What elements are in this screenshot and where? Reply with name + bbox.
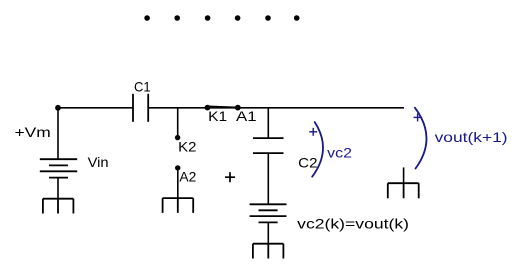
svg-text:C2: C2	[298, 154, 318, 170]
svg-text:vc2: vc2	[327, 145, 352, 161]
wire: Vm node to C1	[58, 107, 133, 109]
wire: branch down to K2	[177, 108, 179, 138]
svg-text:K2: K2	[178, 138, 196, 154]
wire: output reference stub	[403, 167, 405, 183]
wire: branch down to C2	[267, 108, 269, 138]
svg-text:vc2(k)=vout(k): vc2(k)=vout(k)	[297, 216, 409, 232]
node K1 contact dot	[205, 105, 211, 111]
wire: battery to ground	[267, 222, 269, 243]
battery vc2(k) initial condition source	[250, 204, 287, 222]
vc2 measurement arc	[312, 122, 323, 177]
wire: battery to ground	[57, 178, 59, 199]
node A1 contact dot	[235, 105, 241, 111]
plus polarity mark (vc2 battery)	[225, 172, 235, 182]
dotted continuation row	[144, 15, 299, 21]
node +Vm junction dot	[55, 105, 61, 111]
ground (below Vin)	[43, 199, 74, 214]
svg-text:A2: A2	[179, 169, 196, 185]
ground (below vc2 battery)	[253, 244, 284, 259]
svg-text:A1: A1	[236, 108, 257, 124]
svg-text:vout(k+1): vout(k+1)	[435, 129, 508, 145]
wire: C2 to battery vc2(k)	[267, 153, 269, 204]
node K2 contact dot	[175, 135, 180, 140]
svg-text:Vin: Vin	[88, 154, 109, 170]
svg-text:C1: C1	[134, 79, 151, 95]
ground (below A2 switch)	[163, 198, 194, 213]
ground (output reference)	[388, 183, 419, 198]
plus polarity mark (vc2, blue)	[309, 128, 317, 136]
switch arm K1-A1 (closed)	[208, 106, 238, 107]
wire: Vm node down to Vin battery	[57, 108, 59, 159]
svg-text:+Vm: +Vm	[15, 124, 51, 140]
plus polarity mark (vout, blue)	[414, 113, 422, 121]
capacitor C1	[133, 94, 148, 122]
battery Vin	[40, 159, 77, 177]
node A2 contact dot	[175, 165, 180, 170]
svg-text:K1: K1	[208, 108, 227, 124]
wire: A2 to ground	[177, 168, 179, 198]
wire: C1 to output net	[148, 107, 404, 109]
vout measurement arc	[415, 108, 427, 169]
capacitor C2	[253, 138, 284, 153]
